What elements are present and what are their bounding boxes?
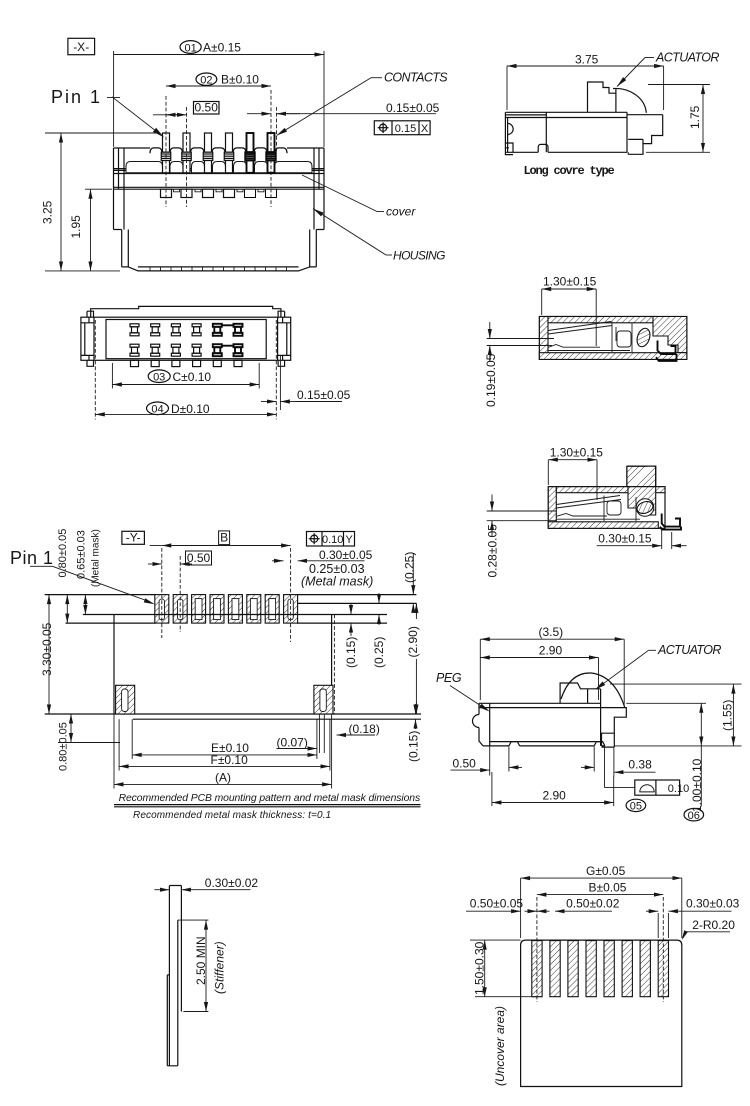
right bracket + foot bbox=[601, 708, 627, 748]
interior contact bbox=[556, 496, 640, 522]
balloon 05 bbox=[626, 799, 646, 811]
svg-text:05: 05 bbox=[630, 801, 642, 813]
dim 1.30±0.15 bbox=[547, 460, 549, 485]
dim E bbox=[131, 719, 133, 759]
svg-text:B: B bbox=[220, 531, 228, 545]
FFC slot teeth bbox=[150, 267, 287, 271]
svg-text:0.50: 0.50 bbox=[453, 756, 477, 770]
profile frame 0.10 bbox=[635, 780, 680, 795]
svg-text:1.50±0.30: 1.50±0.30 bbox=[473, 941, 487, 995]
left edge detail bbox=[505, 123, 513, 152]
hatched left wall bbox=[539, 317, 548, 360]
dim (1.55) bbox=[610, 683, 742, 685]
dim 3.75 bbox=[506, 66, 508, 110]
right latch structure bbox=[627, 115, 663, 155]
dim 0.80 bottom bbox=[58, 742, 120, 744]
svg-text:(0.25): (0.25) bbox=[402, 552, 416, 583]
svg-text:(0.15): (0.15) bbox=[407, 731, 421, 762]
dim 2.90 top bbox=[598, 658, 600, 701]
svg-text:-Y-: -Y- bbox=[126, 531, 141, 545]
svg-text:0.10: 0.10 bbox=[322, 534, 343, 546]
svg-text:(2.90): (2.90) bbox=[406, 626, 420, 657]
GD&T position 0.15 X bbox=[374, 121, 430, 135]
cover scallops row1 bbox=[150, 148, 287, 153]
hatched bottom band bbox=[539, 353, 686, 360]
actuator lever bbox=[588, 82, 616, 112]
section2 outer box bbox=[548, 487, 665, 529]
svg-text:Long covre type: Long covre type bbox=[524, 164, 615, 178]
cam hatched bbox=[635, 327, 652, 349]
svg-text:Pin 1: Pin 1 bbox=[51, 87, 102, 107]
svg-text:3.30±0.05: 3.30±0.05 bbox=[40, 622, 54, 676]
dim 3.25 bbox=[45, 132, 159, 134]
svg-text:X: X bbox=[421, 123, 429, 135]
dim B bbox=[537, 894, 663, 896]
hatched right block bbox=[653, 317, 687, 353]
dim 2.90 bottom bbox=[491, 772, 493, 806]
svg-text:(A): (A) bbox=[215, 771, 231, 785]
svg-text:0.15: 0.15 bbox=[395, 123, 416, 135]
dim 02 B±0.10 bbox=[166, 85, 271, 87]
top cap outline bbox=[91, 306, 281, 317]
svg-text:1.30±0.15: 1.30±0.15 bbox=[550, 445, 604, 459]
GD&T frame 0.10 Y bbox=[307, 532, 355, 547]
svg-text:0.30±0.05: 0.30±0.05 bbox=[319, 548, 373, 562]
pad level lines bbox=[45, 594, 156, 596]
contacts two rows bbox=[130, 324, 201, 356]
svg-text:0.15±0.05: 0.15±0.05 bbox=[297, 388, 351, 402]
left end cap bbox=[81, 311, 94, 366]
svg-text:2.90: 2.90 bbox=[539, 643, 563, 657]
svg-text:ACTUATOR: ACTUATOR bbox=[657, 643, 721, 657]
svg-text:Recommended metal mask thickne: Recommended metal mask thickness: t=0.1 bbox=[133, 810, 331, 821]
svg-text:G±0.05: G±0.05 bbox=[586, 864, 626, 878]
svg-text:0.30±0.02: 0.30±0.02 bbox=[205, 876, 259, 890]
svg-text:1.95: 1.95 bbox=[69, 215, 83, 239]
anchor pads bbox=[116, 685, 135, 714]
hatched left wall bbox=[548, 487, 556, 529]
solder foot thick bbox=[660, 514, 681, 530]
svg-text:0.10: 0.10 bbox=[668, 783, 689, 795]
left rotated dims bbox=[66, 595, 68, 624]
right end cap bbox=[278, 311, 291, 366]
dim 04 D±0.10 bbox=[95, 413, 276, 415]
section1 outer box bbox=[539, 317, 686, 360]
svg-text:3.75: 3.75 bbox=[575, 53, 599, 67]
side body bbox=[479, 689, 605, 746]
svg-text:HOUSING: HOUSING bbox=[393, 249, 445, 263]
dim (0.25) upper right bbox=[412, 553, 414, 595]
svg-text:F±0.10: F±0.10 bbox=[211, 753, 249, 767]
svg-text:Recommended PCB mounting patte: Recommended PCB mounting pattern and met… bbox=[119, 793, 420, 804]
dim 0.15±0.05 gap bbox=[279, 356, 281, 410]
dim 0.50 boxed bbox=[186, 551, 212, 565]
svg-text:1.30±0.15: 1.30±0.15 bbox=[543, 275, 597, 289]
FFC outline bbox=[521, 940, 682, 1086]
svg-text:D±0.10: D±0.10 bbox=[171, 402, 210, 416]
dim F bbox=[118, 719, 120, 770]
svg-text:2.90: 2.90 bbox=[543, 789, 567, 803]
svg-text:3.25: 3.25 bbox=[41, 200, 55, 224]
svg-text:C±0.10: C±0.10 bbox=[173, 370, 212, 384]
svg-text:B±0.05: B±0.05 bbox=[589, 881, 627, 895]
svg-text:0.38: 0.38 bbox=[628, 758, 652, 772]
cover label bbox=[302, 175, 377, 212]
dim (2.90) bbox=[415, 603, 417, 619]
datum -Y- bbox=[122, 531, 144, 544]
dim 03 C±0.10 bbox=[111, 363, 113, 389]
cover top edge bbox=[114, 147, 325, 149]
svg-text:B±0.10: B±0.10 bbox=[221, 73, 259, 87]
svg-text:(Metal mask): (Metal mask) bbox=[91, 529, 102, 587]
housing body outline bbox=[114, 148, 325, 271]
bottom feet bbox=[509, 742, 605, 746]
svg-text:0.80±0.05: 0.80±0.05 bbox=[58, 722, 70, 771]
side body bbox=[505, 112, 627, 152]
svg-text:(0.15): (0.15) bbox=[344, 637, 358, 668]
svg-text:2-R0.20: 2-R0.20 bbox=[692, 918, 735, 932]
datum -X- bbox=[68, 38, 95, 54]
svg-text:0.50: 0.50 bbox=[195, 101, 219, 115]
pad centerlines dashed bbox=[161, 548, 163, 638]
dim 1.30±0.15 bbox=[541, 289, 543, 315]
svg-text:(Metal mask): (Metal mask) bbox=[301, 574, 373, 588]
centerlines bbox=[94, 320, 96, 420]
body outline bbox=[83, 614, 387, 616]
svg-text:0.15±0.05: 0.15±0.05 bbox=[386, 101, 440, 115]
dim (0.25) mid bbox=[378, 593, 380, 603]
pin centerlines bbox=[165, 96, 167, 207]
svg-text:03: 03 bbox=[153, 371, 165, 383]
dim (A) bbox=[113, 714, 115, 789]
svg-text:04: 04 bbox=[151, 404, 163, 416]
dim G bbox=[520, 878, 522, 938]
svg-text:0.50: 0.50 bbox=[187, 551, 211, 565]
feet pitch arrows bbox=[509, 766, 522, 768]
dim 0.50 pitch bbox=[194, 102, 220, 115]
hatched top band bbox=[556, 487, 665, 493]
svg-text:0.50±0.02: 0.50±0.02 bbox=[566, 897, 620, 911]
uncover pads bbox=[532, 941, 669, 997]
svg-text:02: 02 bbox=[200, 74, 212, 86]
dim B boxed bbox=[219, 531, 230, 545]
dim 01 A±0.15 bbox=[113, 51, 115, 147]
bottom cutout bbox=[538, 144, 548, 152]
svg-text:(0.18): (0.18) bbox=[349, 722, 380, 736]
svg-text:A±0.15: A±0.15 bbox=[203, 41, 241, 55]
solder foot thick bbox=[656, 341, 677, 361]
svg-text:Pin 1: Pin 1 bbox=[10, 548, 54, 568]
svg-text:0.19±0.05: 0.19±0.05 bbox=[484, 353, 498, 407]
svg-text:(Uncover area): (Uncover area) bbox=[493, 1006, 507, 1086]
svg-text:cover: cover bbox=[386, 205, 416, 219]
cover scallops row2 bbox=[126, 162, 312, 173]
contact spring interior bbox=[548, 322, 632, 353]
actuator closed bbox=[560, 683, 601, 703]
hatched top band bbox=[548, 317, 657, 323]
svg-text:(3.5): (3.5) bbox=[539, 625, 564, 639]
svg-text:(1.55): (1.55) bbox=[721, 700, 735, 731]
dim 0.28±0.05 bbox=[487, 510, 556, 512]
dim 0.19±0.05 bbox=[487, 338, 554, 340]
HOUSING label bbox=[313, 209, 386, 255]
dim (0.15) mid bbox=[350, 604, 352, 615]
svg-text:CONTACTS: CONTACTS bbox=[384, 71, 448, 85]
actuator arc bbox=[613, 88, 646, 112]
svg-text:0.28±0.05: 0.28±0.05 bbox=[486, 524, 500, 578]
stubs bbox=[174, 189, 265, 192]
svg-text:(0.25): (0.25) bbox=[372, 637, 386, 668]
hatched bottom band bbox=[548, 522, 658, 529]
dim (0.15) bottom bbox=[415, 704, 417, 714]
solder foot left bbox=[505, 152, 513, 154]
svg-text:(0.07): (0.07) bbox=[277, 736, 308, 750]
svg-text:0.30±0.03: 0.30±0.03 bbox=[686, 897, 740, 911]
svg-text:Y: Y bbox=[345, 534, 353, 546]
dim (3.5) bbox=[479, 639, 481, 700]
dim 1.50±0.30 bbox=[470, 939, 521, 941]
dim 2.50 MIN stiffener bbox=[178, 919, 209, 921]
svg-text:-X-: -X- bbox=[73, 40, 89, 54]
actuator dome bbox=[561, 673, 625, 708]
peg notch bbox=[473, 715, 479, 728]
svg-text:PEG: PEG bbox=[436, 671, 462, 685]
svg-text:01: 01 bbox=[184, 42, 196, 54]
raised actuator hatched bbox=[627, 466, 656, 487]
dim 1.75 bbox=[648, 84, 710, 86]
svg-text:ACTUATOR: ACTUATOR bbox=[655, 51, 719, 65]
svg-text:2.50 MIN: 2.50 MIN bbox=[194, 936, 208, 985]
FFC cable end bbox=[167, 886, 181, 1066]
svg-text:(Stiffener): (Stiffener) bbox=[213, 941, 227, 994]
pads row bbox=[155, 595, 298, 624]
centerline dashes bbox=[536, 897, 538, 1002]
svg-text:1.00±0.10: 1.00±0.10 bbox=[690, 758, 704, 812]
svg-text:0.80±0.05: 0.80±0.05 bbox=[57, 529, 69, 578]
hatched actuator block inside bbox=[628, 487, 656, 515]
dim 1.95 bbox=[85, 188, 112, 190]
contact pins bbox=[161, 133, 277, 198]
svg-text:1.75: 1.75 bbox=[688, 105, 702, 129]
svg-text:0.65±0.03: 0.65±0.03 bbox=[76, 530, 88, 579]
tail stubs bbox=[131, 360, 243, 366]
cover lines bbox=[114, 169, 325, 190]
balloon 06 + 1.00±0.10 bbox=[684, 809, 704, 821]
svg-text:0.30±0.15: 0.30±0.15 bbox=[598, 532, 652, 546]
body bbox=[81, 317, 291, 360]
svg-text:0.50±0.05: 0.50±0.05 bbox=[470, 897, 524, 911]
dim 3.30±0.05 bbox=[48, 595, 50, 714]
